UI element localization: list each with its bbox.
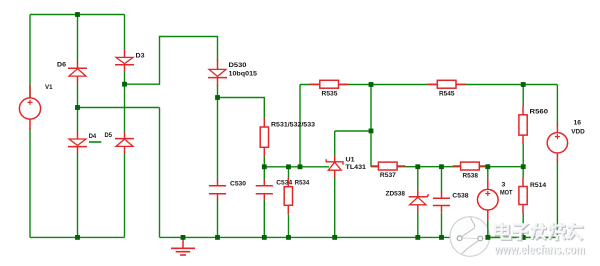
junction top rail / D6 [75,12,80,17]
svg-text:MOT: MOT [500,189,513,196]
source VDD [547,124,567,162]
junction mid row / R535 riser [298,164,303,169]
wire VDD drop [556,85,558,126]
wire D3 to D5 [124,72,126,133]
wire D6 top [77,15,79,62]
svg-text:R537: R537 [380,172,396,179]
wire D5 to bottom rail [124,153,126,237]
wire top rail [30,14,125,16]
svg-text:TL431: TL431 [346,164,367,171]
junction bottom rail / C530 [215,235,220,240]
svg-text:R531/532/533: R531/532/533 [271,121,315,128]
svg-text:R535: R535 [322,90,338,97]
junction D530 cathode node [215,95,220,100]
junction mid row / MOT [485,164,490,169]
svg-text:D6: D6 [57,62,66,69]
junction bottom rail / C534 [262,235,267,240]
wire R560 to mid node [522,144,524,167]
wire MOT top [487,167,489,179]
wire C530 to bottom rail [217,200,219,238]
junction bottom rail / R534 [286,235,291,240]
wire R534 to bottom rail [288,215,290,238]
wire R534 top [288,167,290,178]
wire mid row left [264,166,329,168]
junction bottom rail / R514 (over watermark) [521,235,526,240]
source MOT [478,178,499,221]
wire D3 node to D530 [125,37,218,85]
svg-text:10bq015: 10bq015 [229,71,258,78]
wire bottom rail segment (over watermark) [486,236,557,238]
svg-text:R514: R514 [530,182,546,189]
wire C534 to bottom rail [263,200,265,238]
wire top rail 2 [300,84,557,86]
wire D530 to node [217,85,219,98]
diode D5 [115,132,134,154]
wire C534 top [263,167,265,180]
junction D3 anode node [122,82,127,87]
watermark logo disc [450,217,490,257]
resistor R514 [519,178,527,214]
wire U1 anode to bottom rail [334,178,336,237]
watermark text 电子发烧友 [496,224,584,241]
wire MOT to bottom rail (over watermark) [487,221,489,238]
ground [171,238,195,255]
svg-text:U1: U1 [346,156,355,163]
junction mid row / R531 [262,164,267,169]
voltage source V1 [19,85,40,129]
wire D3 top [124,15,126,51]
diode D530 [208,60,227,87]
junction bottom rail / R514 [521,235,526,240]
resistor R535 [310,80,349,88]
svg-text:R545: R545 [439,90,455,97]
svg-text:C534: C534 [276,180,292,187]
wire R531 to mid node [263,156,265,167]
wire net stub under D4 label [89,141,101,143]
svg-text:D4: D4 [89,133,97,140]
svg-text:V1: V1 [45,84,53,91]
wire node to D4 [77,108,79,133]
svg-text:D5: D5 [105,132,113,139]
svg-text:16: 16 [574,119,582,126]
junction mid row / C538 [439,164,444,169]
svg-text:VDD: VDD [571,128,585,135]
resistor R560 [519,106,527,144]
junction bottom rail / ZD538 [415,235,420,240]
resistor R534 [284,178,292,215]
op-amp U1 TL431 shunt regulator [326,156,343,179]
wire U1 top [334,131,336,156]
svg-text:R560: R560 [530,108,549,115]
capacitor C530 [209,179,226,200]
junction mid row / R534 [286,164,291,169]
wire MOT to bottom rail [487,221,489,238]
svg-text:D530: D530 [229,62,247,69]
resistor R537 [370,162,405,170]
wire C538 to bottom rail [441,212,443,237]
capacitor C538 [433,192,450,212]
wire ZD538 to bottom rail [417,211,419,237]
wire R514 top [522,167,524,178]
capacitor C534 [256,179,273,200]
wire R535 riser [299,85,301,167]
wire R560 top [522,85,524,107]
junction bottom rail / U1 anode [332,235,337,240]
junction bottom rail / MOT [485,235,490,240]
svg-text:C538: C538 [452,193,468,200]
zener diode ZD538 [409,190,429,212]
svg-text:R538: R538 [463,172,479,179]
wire zigzag to bottom rail [159,108,161,238]
junction bottom rail / ground [181,235,186,240]
wire C538 top [441,167,443,193]
junction D6 anode node [75,105,80,110]
diode D6 [68,61,87,83]
junction mid row / R560-R514 [521,164,526,169]
wire D4 to bottom rail [77,153,79,238]
wire node to R531 [218,98,265,120]
wire node to zigzag [78,107,160,109]
wire mid row right [371,166,523,168]
diode D4 [68,132,87,154]
wire V1 bottom [29,128,31,237]
junction mid row / ZD538 [415,164,420,169]
resistor R538 [453,162,488,170]
wire U1 cathode link [335,130,371,132]
junction top rail / R537 riser [369,82,374,87]
wire ZD538 top [417,167,419,190]
junction bottom rail / MOT (over watermark) [485,235,490,240]
wire VDD to bottom rail [556,161,558,237]
svg-text:www.elecfans.com: www.elecfans.com [494,243,585,257]
svg-text:ZD538: ZD538 [386,190,406,197]
wire bottom rail right [160,236,558,238]
wire bottom rail left [30,236,125,238]
svg-text:D3: D3 [136,53,145,60]
junction top rail / R560 [521,82,526,87]
junction bottom rail / C538 [439,235,444,240]
wire D6 to node [77,83,79,108]
svg-text:C530: C530 [230,181,246,188]
svg-text:R534: R534 [295,180,310,187]
resistor R545 [427,80,466,88]
resistor R531/532/533 [260,118,268,156]
junction bottom rail / D4 [75,235,80,240]
wire R514 to bottom rail [522,213,524,237]
wire node to C530 [217,98,219,181]
wire R537 riser [370,85,372,167]
diode D3 [115,50,134,72]
wire V1 to top rail [29,15,31,98]
junction U1 cathode / riser [369,129,374,134]
svg-text:3: 3 [502,181,506,188]
